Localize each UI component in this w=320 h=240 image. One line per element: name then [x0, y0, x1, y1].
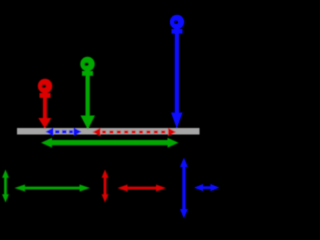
force arrow F green (down) — [80, 57, 95, 130]
red dashed arrow on beam — [93, 128, 177, 137]
legend green horizontal double arrow — [15, 185, 91, 192]
legend green vertical double arrow — [2, 170, 9, 203]
legend red horizontal double arrow — [118, 185, 167, 192]
legend blue vertical double arrow — [180, 158, 188, 219]
blue dashed arrow on beam — [46, 128, 82, 137]
beam — [17, 128, 200, 135]
legend blue horizontal double arrow — [194, 184, 220, 191]
force arrow F blue (down) — [170, 15, 184, 129]
green double arrow below beam — [41, 138, 179, 148]
force arrow F red (down) — [38, 79, 52, 129]
legend red vertical double arrow — [102, 170, 109, 203]
